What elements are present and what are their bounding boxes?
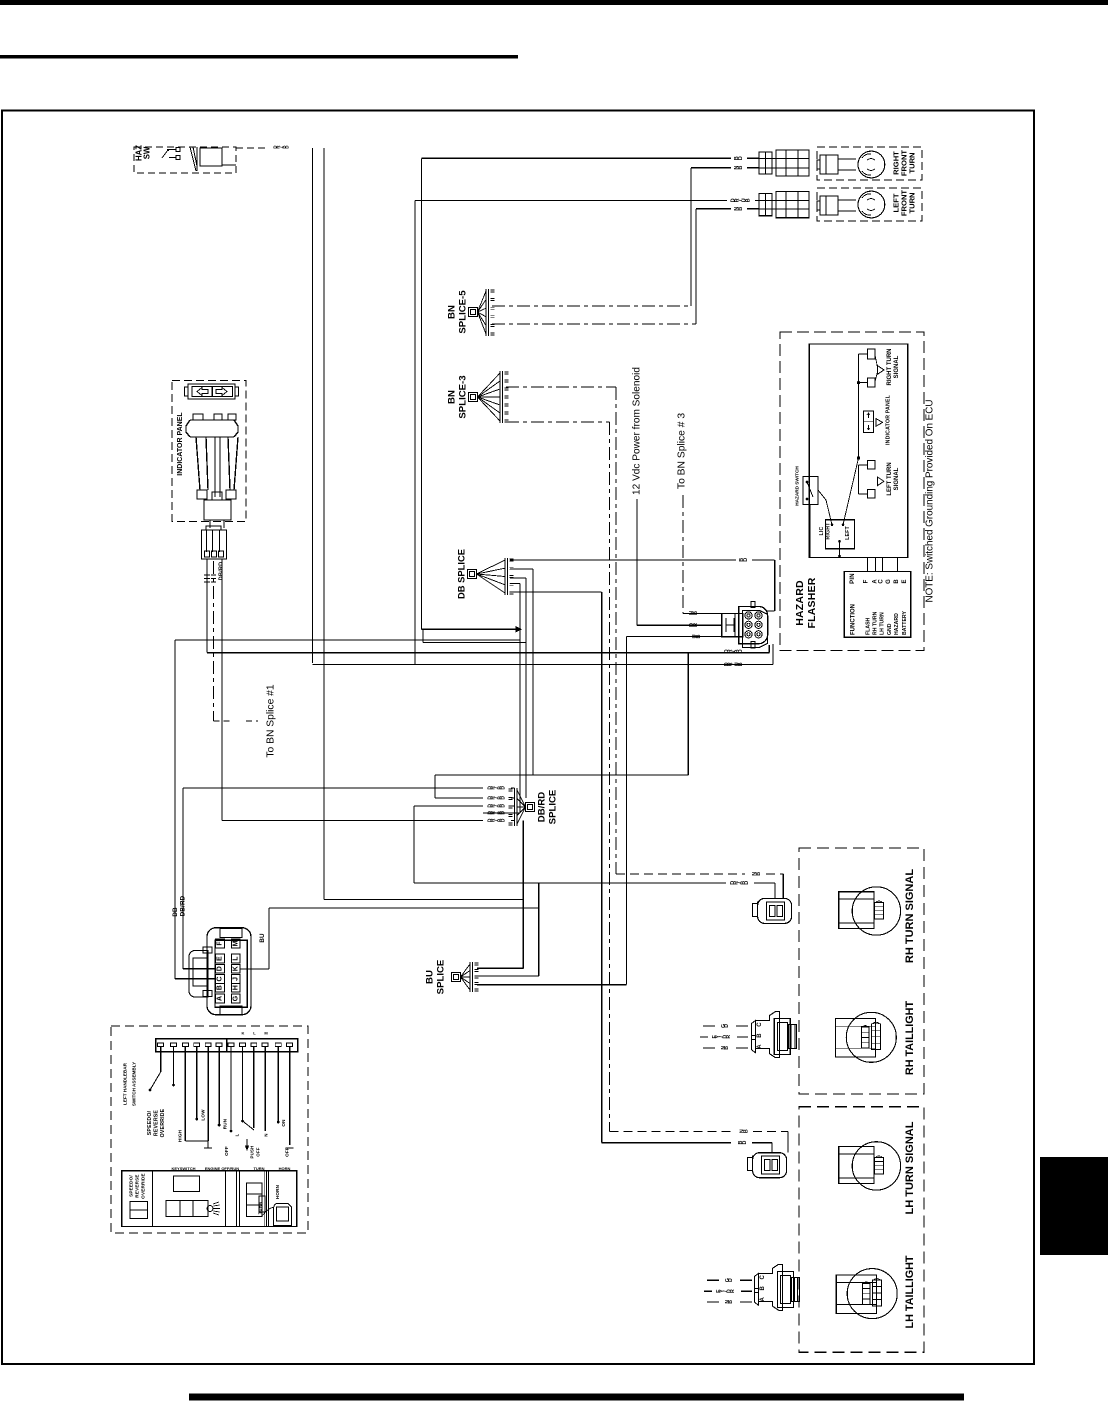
svg-text:RIGHT: RIGHT [826,522,832,540]
svg-text:DB/RD: DB/RD [219,562,225,581]
svg-text:N: N [740,1129,746,1133]
svg-text:ON: ON [281,1119,286,1127]
svg-text:TURN: TURN [908,192,917,213]
svg-text:D: D [487,786,493,790]
svg-text:F: F [864,579,870,583]
svg-text:LEFT HANDLEBAR: LEFT HANDLEBAR [123,1062,128,1105]
svg-text:SPEEDO/: SPEEDO/ [147,1110,153,1135]
svg-text:D: D [724,649,730,653]
svg-text:LEFT TURN: LEFT TURN [887,462,893,495]
svg-text:KEYSWITCH: KEYSWITCH [172,1166,196,1171]
svg-text:C: C [216,976,223,981]
svg-text:A: A [872,579,878,584]
svg-text:N: N [689,611,695,615]
svg-text:L: L [235,1133,240,1136]
svg-text:PUSH: PUSH [250,1146,255,1159]
svg-text:LEFT: LEFT [845,525,851,539]
svg-text:HAZARD SWITCH: HAZARD SWITCH [795,466,800,506]
svg-text:C: C [879,579,885,584]
svg-text:PIN: PIN [850,573,856,584]
svg-text:HAZARD: HAZARD [794,580,806,626]
svg-text:E: E [712,1035,718,1039]
svg-text:SIGNAL: SIGNAL [894,467,900,490]
svg-text:BN: BN [447,305,458,319]
svg-text:RH TURN SIGNAL: RH TURN SIGNAL [904,869,916,963]
svg-text:RUN: RUN [223,1118,228,1129]
svg-text:SPLICE: SPLICE [436,959,447,994]
svg-text:U: U [692,634,698,638]
svg-text:B: B [757,1033,763,1038]
svg-text:G: G [721,1024,727,1028]
svg-text:INDICATOR PANEL: INDICATOR PANEL [177,412,184,476]
svg-text:D: D [487,796,493,800]
svg-text:N: N [734,166,740,170]
svg-text:B: B [734,156,740,160]
svg-text:N: N [264,1133,269,1136]
svg-text:OVERRIDE: OVERRIDE [160,1108,166,1137]
svg-text:SPEEDO/: SPEEDO/ [129,1175,134,1197]
svg-text:DB/RD: DB/RD [180,895,187,916]
svg-text:HORN: HORN [275,1184,280,1199]
svg-text:E: E [716,1289,722,1293]
svg-text:G: G [886,579,892,584]
svg-text:OVERRIDE: OVERRIDE [141,1173,146,1199]
svg-text:TURN: TURN [257,1202,262,1214]
svg-text:LOW: LOW [201,1109,206,1121]
svg-text:ENGINE OFF/RUN: ENGINE OFF/RUN [205,1166,239,1171]
svg-text:RH TURN: RH TURN [872,611,878,635]
svg-text:DB SPLICE: DB SPLICE [456,549,467,599]
svg-text:FLASHER: FLASHER [806,577,818,628]
svg-text:REVERSE: REVERSE [154,1110,160,1137]
svg-text:G: G [725,1278,731,1282]
svg-text:HIGH: HIGH [178,1129,183,1142]
svg-text:D: D [273,145,278,148]
svg-text:12 Vdc Power from Solenoid: 12 Vdc Power from Solenoid [632,367,643,495]
svg-text:LH TURN SIGNAL: LH TURN SIGNAL [904,1121,916,1214]
svg-text:NOTE: Switched Grounding Provi: NOTE: Switched Grounding Provided On ECU [925,399,936,602]
svg-text:D: D [216,966,223,971]
svg-text:N: N [734,207,740,211]
svg-text:BN: BN [447,390,458,404]
svg-text:BATTERY: BATTERY [902,611,908,635]
svg-text:REVERSE: REVERSE [135,1174,140,1197]
svg-text:H: H [232,985,239,990]
svg-text:SPLICE-3: SPLICE-3 [458,375,469,418]
svg-text:SPLICE: SPLICE [548,789,559,824]
svg-text:J: J [232,977,239,981]
svg-text:INDICATOR PANEL: INDICATOR PANEL [886,394,892,445]
svg-text:BU: BU [259,933,266,943]
svg-text:LH TURN: LH TURN [879,612,885,635]
svg-text:To BN Splice # 3: To BN Splice # 3 [677,413,688,489]
svg-text:GND: GND [887,623,893,635]
svg-text:C: C [757,1022,763,1027]
svg-text:D: D [487,811,493,815]
svg-text:RH TAILLIGHT: RH TAILLIGHT [904,1001,916,1076]
svg-text:BU: BU [425,970,436,984]
svg-text:LIC: LIC [819,526,825,535]
svg-text:E: E [216,956,223,961]
svg-text:RIGHT TURN: RIGHT TURN [887,349,893,386]
svg-text:B: B [760,1285,766,1290]
svg-text:SWITCH ASSEMBLY: SWITCH ASSEMBLY [132,1062,137,1106]
svg-text:N: N [725,1300,731,1304]
svg-text:FLASH: FLASH [866,617,872,635]
svg-text:SIGNAL: SIGNAL [894,355,900,378]
svg-text:E: E [902,579,908,583]
svg-text:D: D [487,818,493,822]
svg-text:B: B [216,985,223,990]
svg-text:C: C [760,1274,766,1279]
svg-text:LH TAILLIGHT: LH TAILLIGHT [904,1255,916,1328]
svg-text:N: N [752,872,758,876]
svg-text:OFF: OFF [224,1146,229,1156]
svg-text:G: G [232,995,239,1001]
svg-text:M: M [232,940,239,946]
svg-text:OFF: OFF [285,1147,290,1157]
svg-text:SPLICE-5: SPLICE-5 [458,290,469,334]
svg-text:K: K [242,1031,245,1036]
svg-text:TURN: TURN [908,152,917,173]
svg-text:HAZARD: HAZARD [894,613,900,635]
svg-text:A: A [757,1044,763,1049]
svg-text:A: A [760,1296,766,1301]
svg-text:HORN: HORN [279,1166,291,1171]
svg-text:F: F [216,941,223,946]
svg-text:TURN: TURN [253,1166,264,1171]
svg-text:To BN Splice #1: To BN Splice #1 [266,684,277,758]
svg-text:D: D [487,804,493,808]
svg-text:DB: DB [172,907,179,917]
svg-text:SW: SW [143,146,152,159]
svg-text:D: D [731,198,737,202]
svg-text:FUNCTION: FUNCTION [851,604,857,635]
svg-text:D: D [689,623,695,627]
svg-text:OFF: OFF [256,1147,261,1156]
svg-text:B: B [738,1140,744,1144]
svg-text:B: B [739,558,745,562]
svg-text:K: K [232,966,239,971]
svg-text:B: B [894,579,900,584]
svg-text:DB/RD: DB/RD [537,792,548,822]
svg-text:L: L [232,956,239,961]
svg-text:D: D [730,881,736,885]
svg-text:N: N [721,1046,727,1050]
svg-text:A: A [216,996,223,1001]
svg-text:D: D [724,662,730,666]
